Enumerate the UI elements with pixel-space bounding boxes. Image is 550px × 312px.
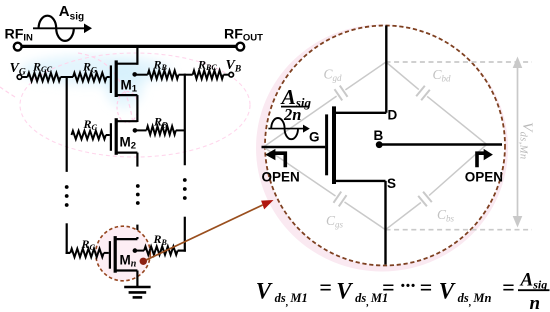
- OPEN right arrow: [477, 153, 486, 167]
- signal source A_sig sine arrow: [33, 27, 85, 29]
- node channel dots: [136, 184, 140, 188]
- wire body lead: [379, 143, 502, 145]
- svg-text:G: G: [309, 130, 320, 145]
- resistor R_B M1: [148, 71, 179, 79]
- svg-text:n: n: [530, 293, 541, 312]
- svg-text:RB: RB: [153, 115, 168, 130]
- source sine arrow 2n: [268, 128, 303, 130]
- wire M1 source to M2 drain: [136, 95, 138, 122]
- svg-text:RB: RB: [153, 232, 168, 247]
- resistor R_BC: [193, 71, 224, 79]
- resistor R_B M2: [147, 126, 176, 134]
- capacitor C_gs: [264, 147, 336, 196]
- svg-text:V: V: [439, 279, 456, 304]
- svg-text:V: V: [256, 279, 273, 304]
- svg-text:=: =: [502, 274, 515, 299]
- svg-text:Vds,Mn: Vds,Mn: [517, 122, 535, 160]
- wire RBC to VB: [223, 74, 229, 76]
- node M2 body dot: [133, 128, 138, 133]
- capacitor C_bd: [386, 62, 419, 90]
- resistor R_GC: [28, 73, 61, 81]
- RF_OUT terminal: [236, 43, 244, 51]
- svg-text:ds: ds: [355, 291, 366, 305]
- svg-text:OPEN: OPEN: [262, 169, 300, 184]
- wire Mn drain up: [136, 237, 138, 239]
- transistor M1: [110, 65, 112, 93]
- svg-text:···: ···: [399, 275, 415, 297]
- transistor Mn: [109, 241, 111, 269]
- net drain level dashed line: [386, 61, 533, 63]
- wire gate bus lower: [66, 223, 68, 254]
- ground: [124, 286, 150, 289]
- wire RG to Mn gate: [104, 252, 109, 254]
- svg-text:D: D: [388, 108, 398, 123]
- svg-text:=: =: [420, 274, 433, 299]
- svg-text:,: ,: [468, 297, 472, 308]
- capacitor C_bs: [429, 144, 487, 195]
- svg-text:=: =: [319, 274, 332, 299]
- zoom callout circle around Mn: [96, 226, 151, 281]
- svg-text:,: ,: [366, 297, 370, 308]
- svg-text:Mn: Mn: [472, 291, 491, 305]
- wire Mn body to RB: [135, 250, 144, 252]
- wire RB M2 to body bus: [176, 129, 185, 131]
- svg-text:VB: VB: [226, 58, 242, 74]
- wire source down: [384, 181, 386, 265]
- wire body bus upper: [184, 74, 186, 166]
- wire VG to RGC: [22, 76, 28, 78]
- svg-text:M1: M1: [289, 291, 307, 305]
- node zoom origin dot: [140, 258, 147, 265]
- svg-text:ds: ds: [458, 291, 469, 305]
- svg-text:S: S: [387, 176, 396, 191]
- svg-text:V: V: [336, 279, 353, 304]
- svg-text:,: ,: [285, 297, 289, 308]
- RF_IN terminal: [14, 43, 22, 51]
- wire M2 source down: [136, 153, 138, 167]
- svg-text:RFOUT: RFOUT: [224, 26, 263, 43]
- wire M1 body to RB: [135, 74, 148, 76]
- svg-text:B: B: [374, 128, 384, 143]
- resistor R_G M1: [73, 73, 107, 81]
- svg-text:RG: RG: [83, 117, 98, 132]
- wire RB to body bus: [179, 74, 193, 76]
- node M1 body dot: [132, 72, 137, 77]
- svg-text:=: =: [382, 274, 395, 299]
- V_B terminal: [229, 72, 234, 77]
- wire gate lead: [262, 146, 326, 148]
- V_G terminal: [17, 75, 22, 80]
- svg-text:RBC: RBC: [197, 57, 217, 72]
- resistor R_G Mn: [70, 249, 103, 257]
- wire RG to M1 gate: [107, 76, 110, 78]
- svg-text:RG: RG: [81, 237, 96, 252]
- resistor R_B Mn: [144, 246, 178, 254]
- wire RGC to gate bus node: [61, 76, 74, 78]
- wire gate bus upper: [66, 76, 68, 172]
- svg-text:OPEN: OPEN: [465, 169, 503, 184]
- node Mn body dot: [133, 248, 138, 253]
- svg-text:Asig: Asig: [520, 269, 548, 291]
- capacitor C_gd: [264, 96, 337, 147]
- OPEN left arrow: [274, 153, 285, 167]
- wire drain up: [385, 26, 387, 113]
- svg-text:M2: M2: [120, 135, 137, 152]
- transistor M2: [110, 123, 112, 151]
- wire RF main line: [20, 45, 236, 48]
- wire M2 body to RB: [135, 129, 147, 131]
- svg-text:2n: 2n: [283, 105, 301, 124]
- svg-text:RFIN: RFIN: [5, 26, 34, 43]
- resistor R_G M2: [72, 131, 106, 139]
- transistor Mn zoomed: [325, 114, 328, 175]
- equation V_ds: [256, 269, 550, 312]
- V_ds,Mn dimension arrow: [517, 65, 519, 224]
- wire Mn source to ground: [136, 271, 138, 288]
- wire RG to M2 gate: [106, 134, 110, 136]
- svg-text:RB: RB: [153, 57, 168, 72]
- wire M1 drain to RF line: [136, 45, 138, 65]
- node body bus dots: [183, 178, 187, 182]
- zoom arrow: [147, 205, 263, 260]
- net source level dashed line: [386, 229, 533, 231]
- svg-text:ds: ds: [275, 291, 286, 305]
- svg-text:Asig: Asig: [59, 3, 84, 22]
- node B dot: [376, 141, 383, 148]
- svg-text:VG: VG: [10, 61, 26, 77]
- wire channel lower: [136, 225, 138, 238]
- zoom big circle: [265, 26, 505, 266]
- wire body bus lower: [184, 217, 186, 252]
- node gate bus dots: [65, 185, 69, 189]
